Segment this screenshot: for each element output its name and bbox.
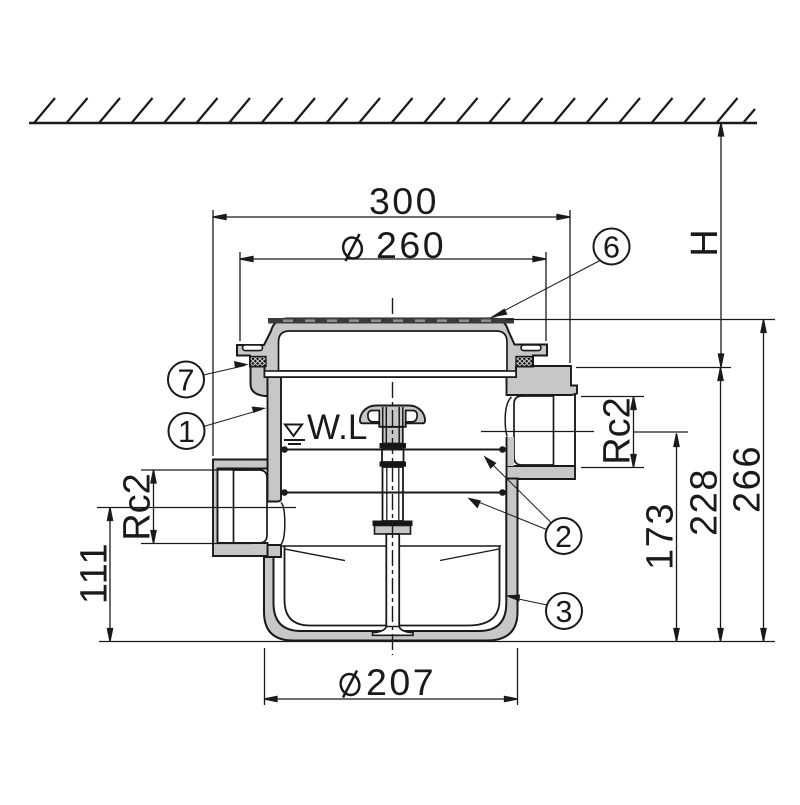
dimension extension lines (99, 210, 775, 705)
left thread block (250, 357, 266, 367)
outlet thread relief outline (514, 396, 554, 465)
baffle dot 1 left (281, 446, 288, 453)
baffle dot 1 right (499, 446, 506, 453)
dim text phi207 (338, 661, 436, 703)
lid lip plate (265, 371, 517, 377)
tube upper (382, 448, 404, 462)
inlet centerline (97, 507, 296, 509)
svg-text:1: 1 (178, 415, 195, 449)
ext line right of phi260 (545, 252, 547, 341)
dimension lines with arrows (107, 123, 766, 702)
svg-text:H: H (684, 229, 726, 256)
leader circle 6 (490, 229, 630, 319)
right flange (507, 366, 578, 395)
bucket wall (285, 546, 500, 626)
Rc2 right top ext (581, 396, 644, 398)
outlet socket end face (574, 394, 576, 467)
lid inner cavity (279, 331, 508, 371)
leader circle 3 (505, 593, 582, 629)
bottom flare (373, 627, 414, 636)
baffle line 2 (284, 492, 503, 494)
right wing notch (521, 345, 541, 351)
bucket left shoulder (285, 549, 345, 561)
leader circle 1 (169, 407, 267, 450)
baffle dot 2 left (281, 489, 288, 496)
dim Rc2 left (153, 470, 155, 544)
ext line right of 300 (569, 210, 571, 363)
phi207 left ext (264, 648, 266, 705)
svg-text:228: 228 (684, 468, 726, 536)
svg-text:173: 173 (640, 502, 682, 570)
right thread block (516, 357, 533, 367)
dim 228 (720, 368, 722, 642)
central pipe group (360, 406, 425, 636)
outlet socket bottom wall (507, 466, 576, 479)
svg-text:3: 3 (556, 595, 573, 629)
ext line flange top right (576, 367, 731, 369)
inlet thread relief outline (234, 470, 268, 543)
water level symbol (284, 425, 305, 445)
phi207 right ext (517, 648, 519, 705)
ext line lid top right (506, 319, 775, 321)
Rc2 left top ext (141, 469, 250, 471)
Rc2 right bottom ext (581, 467, 644, 469)
dim 300 (213, 216, 570, 218)
dim phi207 (264, 698, 518, 700)
right wall piece below bore (507, 437, 515, 466)
baffle line 1 (284, 449, 503, 451)
left rim bump (251, 367, 268, 397)
union collar (373, 521, 412, 526)
bowl ring (264, 479, 518, 641)
inlet bore curve (281, 503, 285, 546)
lid assembly (237, 318, 547, 377)
dim Rc2 right (633, 397, 635, 468)
joint band 2 (380, 462, 406, 466)
tube mid (383, 467, 404, 521)
joint band 1 (380, 444, 406, 448)
svg-text:207: 207 (366, 661, 436, 703)
left upper wall (268, 367, 282, 502)
svg-text:Rc2: Rc2 (117, 473, 159, 541)
svg-text:111: 111 (74, 542, 116, 604)
bucket right shoulder (440, 549, 499, 561)
ext line left of 300 (212, 210, 214, 456)
hub vertical lines (385, 407, 387, 443)
handle right hole (406, 411, 417, 422)
body group (97, 366, 594, 641)
svg-text:Rc2: Rc2 (597, 397, 639, 465)
dim H (720, 123, 722, 367)
outlet bore curve (505, 397, 511, 437)
svg-text:6: 6 (603, 231, 620, 265)
svg-text:266: 266 (727, 445, 769, 513)
baffle dot 2 right (499, 489, 506, 496)
dim 111 (109, 508, 111, 642)
wing handle silhouette (360, 406, 425, 427)
left lower wall stub (268, 545, 282, 557)
inlet socket Rc2 left (213, 460, 268, 557)
leader circle 7 (168, 361, 249, 398)
handle left hole (368, 411, 379, 422)
dim 266 (763, 320, 765, 642)
center line (dashed) (392, 298, 394, 655)
dim text phi260 (340, 224, 446, 266)
svg-text:2: 2 (555, 520, 572, 554)
tube lower (386, 534, 399, 627)
lid outer silhouette (237, 319, 547, 378)
svg-text:260: 260 (376, 224, 446, 266)
handle hub (383, 427, 403, 444)
leader circle 2 (468, 456, 582, 555)
dim phi260 (240, 258, 546, 260)
bucket rim line (282, 545, 501, 547)
ground hatch marks (34, 98, 755, 123)
outlet centerline (481, 431, 594, 433)
Rc2 left bottom ext (141, 543, 252, 545)
left wing notch (243, 345, 263, 351)
svg-text:W.L: W.L (307, 408, 367, 447)
svg-text:300: 300 (369, 180, 439, 222)
dim 173 (676, 434, 678, 642)
bottom base line (99, 641, 775, 643)
ext line left of phi260 (239, 252, 241, 341)
svg-text:7: 7 (178, 364, 195, 398)
ground line (29, 122, 757, 125)
lid top knurled band (268, 318, 514, 324)
ext line outlet centerline (634, 431, 688, 433)
